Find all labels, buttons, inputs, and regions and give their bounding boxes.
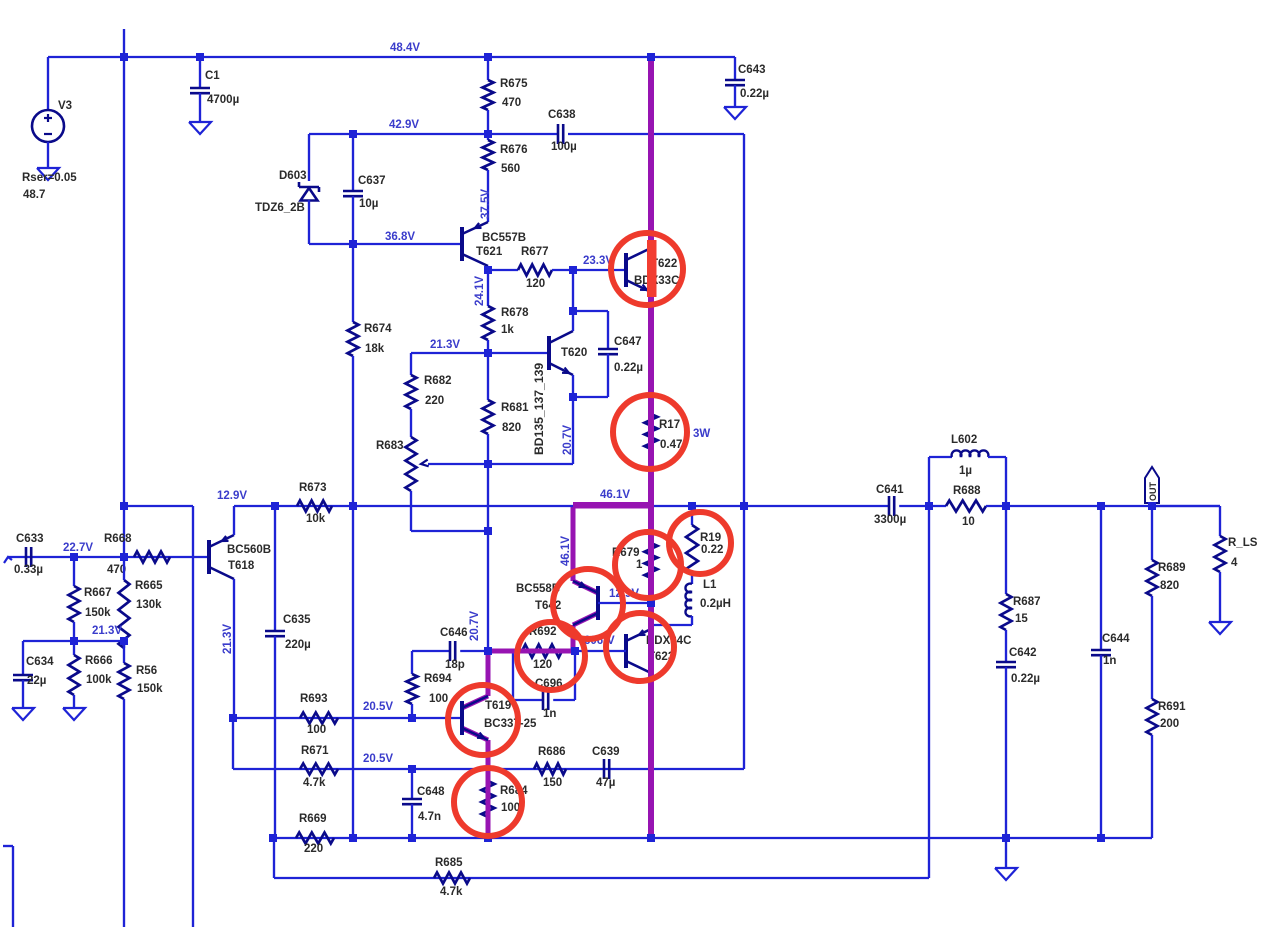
wire T620 collector up to node (572, 311, 574, 331)
svg-text:4.7k: 4.7k (440, 886, 463, 898)
node R671 row wire (233, 768, 412, 770)
transistor T623 BDX34C collector lead (626, 661, 651, 673)
wire C646 to R692 node (460, 650, 488, 652)
svg-text:150k: 150k (137, 683, 163, 695)
svg-text:R674: R674 (364, 323, 392, 335)
svg-text:42.9V: 42.9V (389, 119, 419, 131)
resistor R673 (297, 501, 332, 512)
wire R688 to zobel node (986, 505, 1006, 507)
transistor T618 BC560B body bar (207, 540, 211, 574)
svg-text:120: 120 (533, 659, 552, 671)
svg-text:37.5V: 37.5V (480, 189, 492, 219)
transistor T619 BC337-25 collector lead (462, 696, 488, 708)
wire T620 collector node to C647 (573, 310, 608, 312)
capacitor C648 (402, 798, 422, 801)
svg-text:22.7V: 22.7V (63, 542, 93, 554)
svg-text:130k: 130k (136, 599, 162, 611)
transistor T623 BDX34C body bar (624, 634, 628, 668)
wire C635 down to bottom rail (274, 636, 276, 838)
svg-text:0.22µ: 0.22µ (614, 362, 643, 374)
svg-text:220µ: 220µ (285, 639, 311, 651)
node wire between C641 and R688 (929, 505, 946, 507)
wire R19 to L1 (691, 573, 693, 584)
capacitor C642 (996, 661, 1016, 664)
svg-text:20.5V: 20.5V (363, 753, 393, 765)
svg-text:100k: 100k (86, 674, 112, 686)
highlighted power path (purple) main vertical trunk (648, 54, 654, 838)
wire R683 bottom to x=488 vertical (411, 530, 488, 532)
transistor T642 BC558B emitter lead (573, 581, 598, 593)
wire C696 bottom left (513, 699, 543, 701)
wire C696 left branch (512, 653, 514, 700)
highlighted wire purple T619 emitter diagonal (462, 728, 488, 740)
highlighted wire purple R692 row segment (488, 649, 575, 654)
highlighted wire purple T642 collector diagonal (573, 613, 598, 625)
highlighted wire purple through R684 to ground rail (486, 740, 491, 838)
wire V3 bottom to ground (47, 142, 49, 168)
svg-text:T620: T620 (561, 347, 587, 359)
highlighted wire purple rail overlay (573, 503, 651, 509)
wire OUT node down to R689 (1151, 506, 1153, 560)
wire T620 emitter row to R681 node (488, 463, 573, 465)
resistor R19 (686, 525, 698, 573)
transistor T621 BC557B emitter lead (462, 222, 488, 234)
transistor T642 BC558B body bar (596, 586, 600, 620)
svg-text:R17: R17 (659, 419, 680, 431)
svg-text:C646: C646 (440, 627, 468, 639)
svg-text:Rser=0.05: Rser=0.05 (22, 172, 77, 184)
highlighted wire purple T642 collector to R692 node (571, 625, 576, 651)
capacitor C696 (542, 690, 545, 710)
svg-text:R667: R667 (84, 587, 112, 599)
svg-text:820: 820 (502, 422, 521, 434)
wire R677 node down to R678 (487, 270, 489, 306)
resistor R677 (518, 265, 552, 276)
highlighted wire purple trunk overlay (648, 54, 654, 838)
svg-text:46.1V: 46.1V (560, 536, 572, 566)
resistor R685 (434, 873, 470, 884)
wire L602 left leg (928, 457, 930, 506)
node 21.3V divider row wire (23, 640, 124, 642)
svg-text:C644: C644 (1102, 633, 1130, 645)
svg-text:100: 100 (429, 693, 448, 705)
svg-text:0.22µ: 0.22µ (740, 88, 769, 100)
wire 21.3V node down to R666 (73, 641, 75, 655)
svg-text:200: 200 (1160, 718, 1179, 730)
wire 23.3V node down to T620 collector node (572, 270, 574, 311)
wire down to C646 row (487, 531, 489, 651)
svg-text:C643: C643 (738, 64, 766, 76)
wire bottom left bracket (3, 845, 13, 847)
svg-text:R56: R56 (136, 665, 157, 677)
wire T621 collector down to R677 node (487, 266, 489, 270)
svg-text:4.7k: 4.7k (303, 777, 326, 789)
svg-text:C633: C633 (16, 533, 44, 545)
red annotation circle around R17 (613, 395, 687, 469)
wire R683 bottom lead (410, 491, 412, 531)
svg-text:R665: R665 (135, 580, 163, 592)
svg-text:V3: V3 (58, 100, 72, 112)
svg-text:100: 100 (307, 724, 326, 736)
transistor T622 BDX33C body bar (624, 253, 628, 287)
svg-text:R688: R688 (953, 485, 981, 497)
capacitor C638 (557, 124, 560, 144)
red annotation circle around R679 (615, 532, 681, 598)
wire 21.3V node down to R56 (123, 641, 125, 663)
node 23.3V wire to T622 base (573, 269, 626, 271)
wire long vertical x=193 down off page (192, 506, 194, 927)
svg-text:R671: R671 (301, 745, 329, 757)
wiper arrow wire into R683 (428, 463, 488, 465)
capacitor C647 (598, 348, 618, 351)
wire C648 to ground rail (411, 804, 413, 838)
svg-text:BD135_137_139: BD135_137_139 (532, 363, 546, 455)
resistor R682 (406, 375, 417, 409)
svg-text:220: 220 (425, 395, 444, 407)
svg-text:C639: C639 (592, 746, 620, 758)
node R685 row wire (274, 877, 929, 879)
transistor T622 BDX33C collector lead (626, 248, 651, 260)
wire C642 to ground rail (1005, 667, 1007, 838)
wire C641 to L602 node (899, 505, 929, 507)
resistor R56 (119, 663, 130, 699)
capacitor C646 (449, 641, 452, 661)
capacitor C643 (725, 79, 745, 82)
svg-text:R_LS: R_LS (1228, 537, 1258, 549)
transistor T619 BC337-25 emitter lead (462, 728, 488, 740)
red annotation circle around T619 (448, 685, 518, 755)
wire ground rail stub to ground symbol (1005, 838, 1007, 868)
capacitor C634 (13, 674, 33, 677)
transistor T622 BDX33C emitter arrow (640, 285, 647, 291)
node driver row wire C646 (412, 650, 450, 652)
node ground rail wire (273, 837, 1150, 839)
wire long vertical from top rail down to 22.7V node (123, 57, 125, 557)
resistor R671 (300, 764, 338, 775)
resistor R665 (119, 580, 130, 648)
resistor R674 (348, 322, 359, 356)
svg-text:C635: C635 (283, 614, 311, 626)
ground below V3 (37, 168, 59, 180)
node 21.3V bias row wire (411, 352, 549, 354)
svg-text:21.3V: 21.3V (222, 624, 234, 654)
svg-text:1µ: 1µ (959, 465, 972, 477)
capacitor C641 (888, 496, 891, 516)
svg-text:R669: R669 (299, 813, 327, 825)
resistor R_LS (1215, 536, 1226, 572)
red annotation circle around R692 (517, 622, 585, 690)
svg-text:3W: 3W (693, 428, 710, 440)
wire L1 bottom to emitter node (691, 616, 693, 625)
svg-text:4.7n: 4.7n (418, 811, 441, 823)
svg-text:15: 15 (1015, 613, 1028, 625)
wire C647 bottom to T620 emitter node (607, 354, 609, 397)
resistor R688 (946, 501, 986, 512)
wire R_LS to ground (1219, 572, 1221, 622)
wire 21.3V row corner down to C634 (22, 641, 24, 675)
svg-text:0.22: 0.22 (701, 544, 723, 556)
svg-text:L602: L602 (951, 434, 977, 446)
wire feedback stub x=124 to x=193 (124, 505, 193, 507)
svg-text:10µ: 10µ (359, 198, 378, 210)
resistor R687 (1001, 594, 1012, 630)
capacitor C635 (265, 630, 285, 633)
resistor R676 (483, 140, 494, 170)
wire C696 bottom right (553, 699, 575, 701)
transistor T623 BDX34C emitter lead (626, 629, 651, 641)
resistor R679 (645, 543, 658, 578)
svg-text:1: 1 (636, 559, 643, 571)
svg-text:18p: 18p (445, 659, 465, 671)
svg-text:820: 820 (1160, 580, 1179, 592)
capacitor C644 (1091, 649, 1111, 652)
wire R674 down to ground node at output row (352, 356, 354, 506)
svg-text:R683: R683 (376, 440, 404, 452)
resistor R681 (483, 400, 494, 434)
svg-text:1n: 1n (1103, 655, 1116, 667)
transistor T642 BC558B emitter arrow (579, 582, 586, 587)
svg-text:TDZ6_2B: TDZ6_2B (255, 202, 305, 214)
zener diode D603 (299, 186, 319, 189)
wire V3 to top rail (47, 57, 49, 110)
resistor R684 (482, 781, 495, 817)
svg-text:21.3V: 21.3V (92, 625, 122, 637)
svg-text:BC557B: BC557B (482, 232, 526, 244)
node 22.7V input row wire (8, 556, 209, 558)
inductor L1 (685, 584, 692, 593)
svg-text:R677: R677 (521, 246, 549, 258)
capacitor C633 (25, 547, 28, 567)
node output rail wire 12.9V to 46.1V (275, 505, 889, 507)
svg-text:1k: 1k (501, 324, 514, 336)
wire R693 node down to R671 row (232, 718, 234, 769)
highlighted wire purple R684 overlay (486, 745, 491, 838)
transistor T622 BDX33C emitter lead (626, 280, 651, 292)
svg-text:BDX33C: BDX33C (634, 275, 679, 287)
resistor R667 (69, 586, 80, 622)
svg-text:T642: T642 (535, 600, 561, 612)
svg-text:R687: R687 (1013, 596, 1041, 608)
wire R681 node down to R683 bottom junction (487, 464, 489, 531)
wire R682 to R683 (410, 409, 412, 437)
node 48.4V top supply rail wire (48, 56, 735, 58)
wire C644 to ground rail (1100, 655, 1102, 838)
svg-text:R682: R682 (424, 375, 452, 387)
svg-text:C641: C641 (876, 484, 904, 496)
svg-text:46.1V: 46.1V (600, 489, 630, 501)
svg-text:0.22µ: 0.22µ (1011, 673, 1040, 685)
ground below C634 (12, 708, 34, 720)
svg-text:R686: R686 (538, 746, 566, 758)
resistor R678 (483, 306, 494, 340)
svg-text:22µ: 22µ (27, 675, 46, 687)
svg-text:48.7: 48.7 (23, 189, 45, 201)
transistor T618 BC560B collector lead (209, 567, 234, 579)
svg-text:10k: 10k (306, 513, 326, 525)
wire x=353 vertical continues to bottom rail (352, 506, 354, 838)
highlighted wire purple segment on output rail (573, 502, 651, 508)
svg-text:C638: C638 (548, 109, 576, 121)
ground below R_LS (1209, 622, 1231, 634)
svg-text:1n: 1n (543, 708, 556, 720)
resistor R693 (300, 713, 338, 724)
wire 42.9V rail to C637 (352, 134, 354, 191)
transistor T620 BD135_137_139 collector lead (549, 331, 573, 343)
svg-text:18k: 18k (365, 343, 385, 355)
wire T618 emitter up to 12.9V node (233, 506, 235, 535)
wire R671 row continues to C639 bootstrap corner (412, 768, 744, 770)
resistor R686 (534, 764, 566, 775)
node R693 row wire (233, 717, 462, 719)
capacitor C637 (343, 190, 363, 193)
wire R56 down off page (123, 699, 125, 927)
svg-text:R668: R668 (104, 533, 132, 545)
wire C696 right branch (574, 653, 576, 700)
svg-text:20.7V: 20.7V (562, 425, 574, 455)
wire T620 emitter down to node (572, 375, 574, 397)
svg-text:150: 150 (543, 777, 562, 789)
svg-text:R666: R666 (85, 655, 113, 667)
wire R689 to R691 (1151, 596, 1153, 699)
red annotation circle around T622 (611, 233, 683, 305)
wire 42.9V rail to R676 (487, 134, 489, 140)
wire OUT node to R_LS (1152, 505, 1220, 507)
wire 22.7V node down to R667 (73, 557, 75, 586)
input wire hook (4, 557, 12, 563)
wire R685 row up to output node (928, 506, 930, 878)
junction squares (120, 53, 128, 61)
red annotation circle around T623 (606, 613, 674, 681)
ground below R666 (63, 708, 85, 720)
svg-text:120: 120 (526, 278, 545, 290)
red annotation circle around T642 (553, 569, 623, 639)
svg-text:20.7V: 20.7V (469, 611, 481, 641)
transistor T619 BC337-25 body bar (460, 701, 464, 735)
svg-text:0.2µH: 0.2µH (700, 598, 731, 610)
transistor T642 BC558B collector lead (573, 613, 598, 625)
wire T620 emitter node down (572, 397, 574, 464)
wire T642 base to purple trunk node (598, 602, 651, 604)
wire T618 collector down to R693 node (233, 579, 235, 718)
svg-text:L1: L1 (703, 579, 717, 591)
transistor T623 BDX34C emitter arrow (639, 630, 646, 635)
svg-text:10: 10 (962, 516, 975, 528)
svg-text:0.47: 0.47 (660, 439, 682, 451)
wire L602 right leg (988, 456, 1006, 458)
svg-text:C642: C642 (1009, 647, 1037, 659)
svg-text:R694: R694 (424, 673, 452, 685)
resistor R692 (522, 645, 562, 658)
svg-text:R673: R673 (299, 482, 327, 494)
svg-text:T621: T621 (476, 246, 503, 258)
transistor T619 BC337-25 emitter arrow (477, 733, 484, 739)
resistor R691 (1147, 699, 1158, 735)
svg-text:BC560B: BC560B (227, 544, 271, 556)
wire 20.5V row down to C648 (411, 769, 413, 799)
svg-text:C637: C637 (358, 175, 386, 187)
svg-text:T618: T618 (228, 560, 255, 572)
svg-text:C634: C634 (26, 656, 54, 668)
svg-text:47µ: 47µ (596, 777, 615, 789)
highlighted wire purple T619 collector branch (486, 651, 491, 696)
node 42.9V rail wire right of C638 (568, 133, 744, 135)
wire D603 to 36.8V rail (308, 200, 310, 244)
transistor T620 BD135_137_139 emitter arrow (562, 368, 569, 374)
node output rail wire to OUT (1006, 505, 1220, 507)
svg-text:R689: R689 (1158, 562, 1186, 574)
node 42.9V rail wire (309, 133, 558, 135)
svg-text:OUT: OUT (1148, 482, 1158, 502)
wire stub above junction at x=124 (123, 29, 125, 57)
svg-text:220: 220 (304, 843, 323, 855)
red marker bar over T622 (647, 240, 657, 297)
svg-text:560: 560 (501, 163, 520, 175)
svg-text:12.9V: 12.9V (217, 490, 247, 502)
inductor L602 (952, 450, 962, 457)
svg-text:R675: R675 (500, 78, 528, 90)
transistor T618 BC560B emitter lead (209, 535, 234, 547)
wire C1 to top rail (199, 57, 201, 88)
ground below C643 (724, 107, 746, 119)
resistor R669 (296, 833, 334, 844)
wire R677 to 23.3V node (552, 269, 573, 271)
svg-text:T619: T619 (485, 700, 511, 712)
wire 12.9V node down to C635 (274, 506, 276, 631)
svg-text:BC337-25: BC337-25 (484, 718, 537, 730)
svg-text:470: 470 (502, 97, 521, 109)
ground below C1 (189, 122, 211, 134)
transistor T618 BC560B emitter arrow (222, 536, 229, 541)
wire R676 to T621 emitter (487, 170, 489, 222)
wire bootstrap vertical x=744 (743, 134, 745, 769)
svg-text:R678: R678 (501, 307, 529, 319)
port flag OUT (1145, 467, 1159, 503)
wire 21.3V row corner down to R682 (410, 353, 412, 375)
wire 42.9V rail corner down to D603 (308, 134, 310, 181)
wire output rail down to C644 (1100, 506, 1102, 650)
highlighted wire purple T642 branch vertical (571, 505, 576, 581)
transistor T621 BC557B collector lead (462, 254, 488, 266)
wire R665 leads (123, 557, 125, 580)
svg-text:4700µ: 4700µ (207, 94, 239, 106)
wire output rail to R19 (691, 506, 693, 525)
resistor R683 trimmer (406, 437, 417, 491)
highlighted wire purple R692 row overlay (488, 649, 575, 654)
node 36.8V rail wire to T621 base (353, 243, 462, 245)
wire top rail corner down to C643 (734, 57, 736, 80)
capacitor C639 (603, 759, 606, 779)
resistor R17 (645, 414, 658, 449)
svg-text:R691: R691 (1158, 701, 1186, 713)
transistor T621 BC557B body bar (460, 227, 464, 261)
svg-text:C648: C648 (417, 786, 445, 798)
ground below rail (995, 868, 1017, 880)
svg-text:R693: R693 (300, 693, 328, 705)
red annotation circle around R19 (669, 512, 731, 574)
wire R691 to ground rail corner (1151, 735, 1153, 838)
resistor R681 top lead (487, 353, 489, 400)
wire R677 node to zigzag (488, 269, 518, 271)
svg-text:4: 4 (1231, 557, 1238, 569)
transistor T620 BD135_137_139 body bar (547, 336, 551, 370)
wire ground rail down to R685 row (273, 838, 275, 878)
svg-text:C1: C1 (205, 70, 220, 82)
svg-text:100µ: 100µ (551, 141, 577, 153)
highlighted wire purple T642 emitter diagonal (573, 581, 598, 593)
transistor T620 BD135_137_139 emitter lead (549, 363, 573, 375)
svg-text:36.8V: 36.8V (385, 231, 415, 243)
svg-text:R19: R19 (700, 532, 721, 544)
